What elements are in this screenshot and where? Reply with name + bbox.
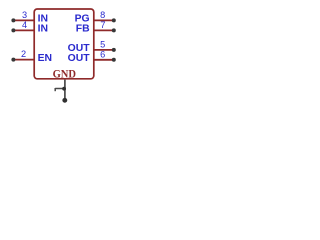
pin 6 (OUT) wire	[94, 59, 114, 61]
pin 8 (PG) wire	[94, 19, 114, 21]
GND branch wire horizontal	[55, 88, 64, 90]
pin 7 (FB) wire	[94, 29, 114, 31]
pin 7 end dot	[112, 28, 116, 32]
svg-text:4: 4	[22, 20, 27, 30]
pin 5 end dot	[112, 48, 116, 52]
svg-text:EN: EN	[38, 53, 52, 64]
pin 5 (OUT) wire	[94, 49, 114, 51]
svg-text:FB: FB	[76, 24, 90, 35]
pin 4 end dot	[11, 28, 15, 32]
junction dot on stem	[62, 87, 66, 91]
pin 4 (IN) wire	[13, 29, 34, 31]
pin 3 end dot	[11, 18, 15, 22]
GND stem bottom dot	[62, 98, 67, 103]
IC U1 body	[34, 9, 94, 79]
pin 6 end dot	[112, 58, 116, 62]
GND branch wire down stub	[54, 88, 56, 91]
svg-text:OUT: OUT	[68, 53, 91, 64]
svg-text:5: 5	[100, 39, 105, 49]
pin 2 (EN) wire	[13, 59, 34, 61]
svg-text:8: 8	[100, 10, 105, 20]
svg-text:7: 7	[100, 20, 105, 30]
GND pin stem wire	[64, 80, 66, 101]
svg-text:3: 3	[22, 10, 27, 20]
pin 3 (IN) wire	[13, 19, 34, 21]
pin 2 end dot	[11, 58, 15, 62]
svg-text:IN: IN	[38, 24, 48, 35]
svg-text:2: 2	[21, 49, 26, 59]
pin 8 end dot	[112, 18, 116, 22]
svg-text:6: 6	[100, 49, 105, 59]
svg-text:GND: GND	[53, 67, 77, 81]
